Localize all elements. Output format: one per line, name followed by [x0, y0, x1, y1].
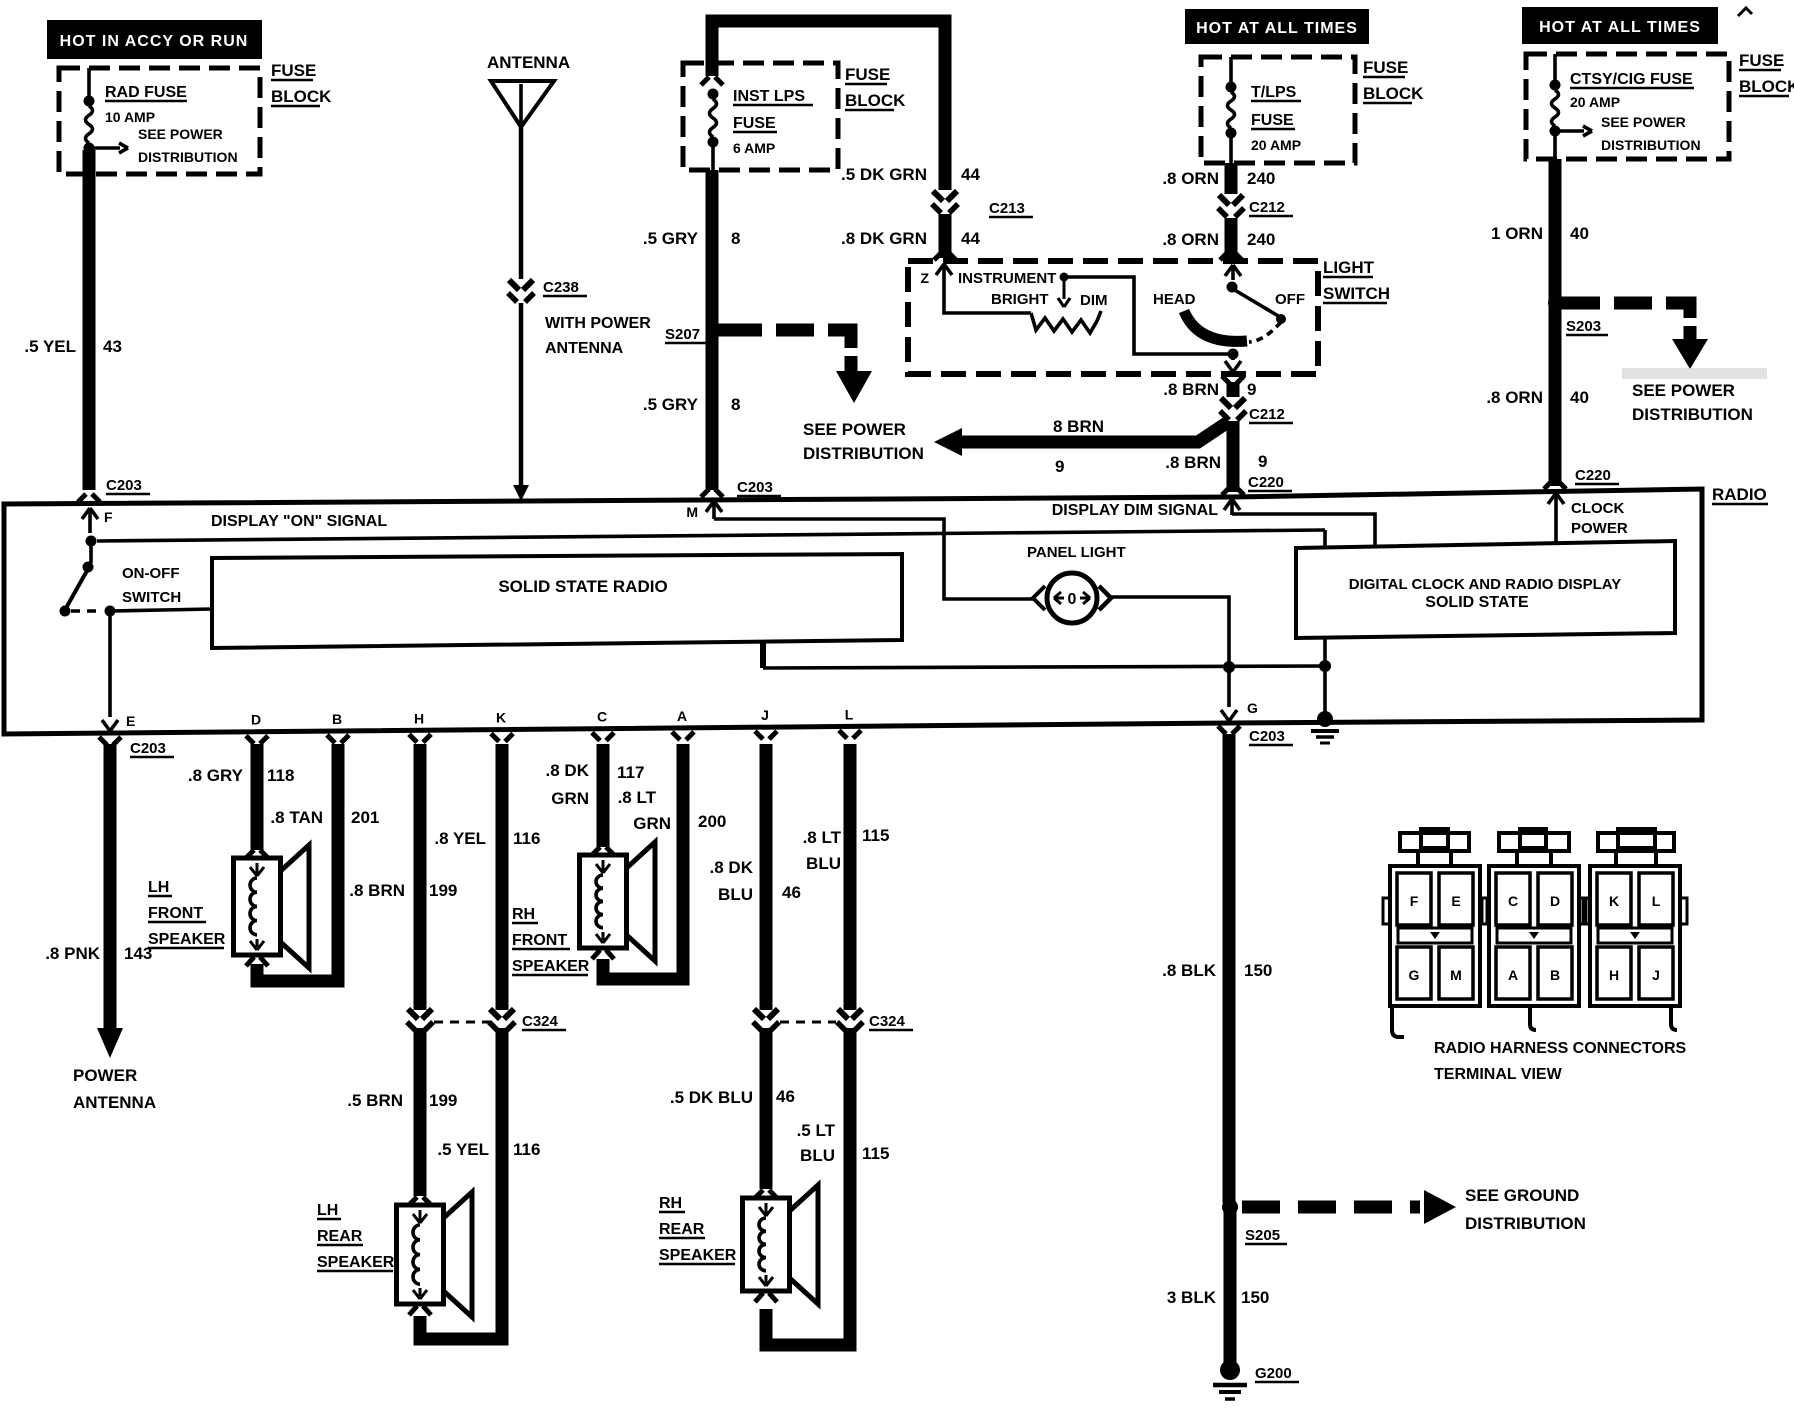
svg-text:8: 8 [731, 395, 740, 414]
ground at radio box [1323, 666, 1327, 716]
svg-text:.8 GRY: .8 GRY [188, 766, 244, 785]
svg-text:G: G [1247, 700, 1258, 716]
svg-text:C220: C220 [1575, 467, 1611, 484]
svg-text:199: 199 [429, 1091, 457, 1110]
svg-text:RH: RH [512, 906, 535, 923]
node lamp/ground [1223, 661, 1235, 673]
display dim signal [1230, 499, 1234, 515]
svg-text:RADIO HARNESS CONNECTORS: RADIO HARNESS CONNECTORS [1434, 1040, 1687, 1057]
svg-text:FRONT: FRONT [148, 905, 203, 922]
label FUSE BLOCK 1 [271, 61, 316, 80]
label C203 [106, 477, 150, 494]
svg-text:115: 115 [862, 826, 889, 845]
svg-text:C324: C324 [522, 1013, 559, 1030]
svg-text:CLOCK: CLOCK [1571, 500, 1624, 517]
svg-text:6 AMP: 6 AMP [733, 140, 775, 156]
svg-text:BLU: BLU [806, 854, 841, 873]
fuse T/LPS 20A [1226, 57, 1237, 163]
wire .8 LT BLU 115 [844, 744, 857, 1010]
svg-text:REAR: REAR [659, 1221, 705, 1238]
wire .8 DK BLU 46 [760, 744, 773, 1010]
label RH REAR SPEAKER [659, 1195, 685, 1212]
svg-text:M: M [686, 504, 698, 520]
svg-text:C212: C212 [1249, 406, 1285, 423]
wire top bar to INST LPS and light switch feed [712, 21, 945, 190]
fuse INST LPS 6A [701, 77, 723, 170]
label RADIO [1712, 485, 1768, 504]
dashed OFF position [1249, 322, 1281, 342]
wire .8 BRN 9 [1227, 382, 1240, 397]
label S207 [665, 326, 707, 343]
connector C324 right [754, 1009, 764, 1019]
svg-text:E: E [126, 713, 135, 729]
wire into light switch [939, 214, 952, 258]
svg-text:200: 200 [698, 812, 726, 831]
svg-text:20 AMP: 20 AMP [1251, 137, 1301, 153]
svg-text:116: 116 [513, 1140, 540, 1159]
svg-text:C324: C324 [869, 1013, 906, 1030]
svg-text:44: 44 [961, 165, 980, 184]
svg-text:HOT IN ACCY OR RUN: HOT IN ACCY OR RUN [60, 33, 249, 50]
svg-text:.5 YEL: .5 YEL [437, 1140, 489, 1159]
fuse RAD FUSE 10A [84, 68, 129, 154]
svg-text:.5 GRY: .5 GRY [643, 395, 699, 414]
svg-text:FUSE: FUSE [1363, 58, 1408, 77]
wire .8 ORN 240 [1225, 163, 1238, 194]
fuse block box 3 [1201, 57, 1355, 163]
svg-text:L: L [1652, 893, 1661, 909]
svg-text:ANTENNA: ANTENNA [73, 1093, 156, 1112]
arrow into radio (antenna) [513, 485, 529, 501]
svg-text:SPEAKER: SPEAKER [659, 1247, 737, 1264]
wire .5 YEL 116 [420, 1028, 502, 1339]
connector C203 (F) [78, 494, 86, 502]
svg-text:DIM: DIM [1080, 292, 1108, 309]
antenna symbol [491, 81, 554, 127]
svg-text:F: F [104, 509, 113, 525]
label C324 right [869, 1013, 913, 1030]
svg-text:DIGITAL CLOCK AND RADIO DISPLA: DIGITAL CLOCK AND RADIO DISPLAY [1349, 576, 1622, 593]
svg-text:M: M [1450, 967, 1462, 983]
svg-text:.8 ORN: .8 ORN [1162, 169, 1219, 188]
svg-text:H: H [414, 710, 424, 726]
label T/LPS [1251, 84, 1301, 101]
label C203 (M) [737, 479, 781, 496]
connector C220 (clock) [1544, 481, 1552, 489]
svg-text:240: 240 [1247, 230, 1275, 249]
svg-text:DISTRIBUTION: DISTRIBUTION [1465, 1214, 1586, 1233]
svg-text:.8 ORN: .8 ORN [1486, 388, 1543, 407]
label G200 [1255, 1365, 1299, 1382]
speaker LH FRONT [234, 858, 281, 955]
svg-text:115: 115 [862, 1144, 889, 1163]
light switch box [908, 261, 1318, 374]
svg-text:C203: C203 [130, 740, 166, 757]
solid state radio box [212, 554, 902, 648]
svg-text:240: 240 [1247, 169, 1275, 188]
label C238 [543, 279, 587, 296]
svg-text:0: 0 [1068, 591, 1077, 608]
svg-text:RADIO: RADIO [1712, 485, 1767, 504]
wire Z to rheostat [944, 281, 1031, 313]
svg-text:OFF: OFF [1275, 291, 1305, 308]
svg-text:118: 118 [267, 766, 294, 785]
svg-text:FUSE: FUSE [733, 115, 776, 132]
svg-text:ON-OFF: ON-OFF [122, 565, 180, 582]
connector C213 [933, 191, 943, 201]
wire .8 YEL 116 [496, 744, 509, 1010]
label CTSY/CIG FUSE [1570, 71, 1694, 88]
svg-text:WITH POWER: WITH POWER [545, 315, 651, 332]
svg-text:199: 199 [429, 881, 457, 900]
connector C203 (M) [701, 489, 709, 497]
svg-text:8: 8 [731, 229, 740, 248]
svg-text:LIGHT: LIGHT [1323, 258, 1375, 277]
label S203 [1566, 318, 1608, 335]
wire to OFF contact [1233, 289, 1280, 317]
svg-text:D: D [251, 712, 261, 728]
arrow 8 BRN to power distribution [960, 422, 1228, 442]
scan artifact mark [1738, 8, 1752, 16]
label C203 bottom [130, 740, 174, 757]
svg-text:S203: S203 [1566, 318, 1601, 335]
svg-text:A: A [677, 708, 687, 724]
label LH REAR SPEAKER [317, 1202, 341, 1219]
svg-text:HEAD: HEAD [1153, 291, 1196, 308]
splice S205 [1222, 1199, 1238, 1215]
svg-text:POWER: POWER [73, 1066, 137, 1085]
svg-text:ANTENNA: ANTENNA [545, 340, 624, 357]
svg-text:SOLID STATE RADIO: SOLID STATE RADIO [498, 577, 667, 596]
label C212 lower [1249, 406, 1293, 423]
terminal M [712, 501, 716, 519]
wire switch to E [108, 611, 112, 717]
switch output [1228, 349, 1239, 360]
svg-text:C: C [597, 709, 607, 725]
svg-text:G: G [1409, 967, 1420, 983]
svg-text:201: 201 [351, 808, 379, 827]
connector C203 (G) [1218, 726, 1226, 734]
svg-text:ANTENNA: ANTENNA [487, 53, 570, 72]
svg-text:G200: G200 [1255, 1365, 1292, 1382]
svg-text:INSTRUMENT: INSTRUMENT [958, 270, 1056, 287]
svg-text:BLOCK: BLOCK [845, 91, 906, 110]
wire .8 DK GRN 117 [597, 744, 610, 847]
connector legs [1392, 1006, 1404, 1037]
terminal 240 input [1231, 265, 1235, 280]
svg-text:RH: RH [659, 1195, 682, 1212]
svg-text:DISPLAY DIM SIGNAL: DISPLAY DIM SIGNAL [1052, 502, 1218, 519]
svg-text:150: 150 [1244, 961, 1272, 980]
wire .5 YEL 43 [83, 150, 96, 490]
radio box [4, 489, 1702, 734]
wire .8 TAN 201 [257, 744, 338, 981]
svg-text:DISTRIBUTION: DISTRIBUTION [1632, 405, 1753, 424]
svg-text:40: 40 [1570, 224, 1589, 243]
svg-text:INST LPS: INST LPS [733, 88, 805, 105]
svg-text:SPEAKER: SPEAKER [512, 958, 590, 975]
digital clock box [1296, 541, 1675, 638]
svg-text:9: 9 [1258, 452, 1267, 471]
svg-text:T/LPS: T/LPS [1251, 84, 1297, 101]
svg-text:9: 9 [1247, 380, 1256, 399]
wire .8 PNK 143 power antenna [104, 744, 117, 1030]
svg-text:.8 PNK: .8 PNK [45, 944, 101, 963]
fuse CTSY/CIG 20A [1550, 54, 1593, 159]
label C213 [989, 200, 1033, 217]
label FUSE BLOCK 2 [845, 65, 890, 84]
label C220 left [1248, 474, 1292, 491]
svg-text:SEE POWER: SEE POWER [138, 126, 223, 142]
svg-text:.8 BRN: .8 BRN [1163, 380, 1219, 399]
terminal G [1227, 672, 1231, 707]
svg-text:SOLID STATE: SOLID STATE [1425, 594, 1529, 611]
svg-text:.8 BRN: .8 BRN [349, 881, 405, 900]
svg-text:L: L [845, 706, 854, 722]
wire .5 LT BLU 115 [766, 1028, 850, 1345]
svg-text:BRIGHT: BRIGHT [991, 291, 1049, 308]
svg-text:BLU: BLU [800, 1146, 835, 1165]
svg-text:FUSE: FUSE [271, 61, 316, 80]
svg-text:SEE GROUND: SEE GROUND [1465, 1186, 1579, 1205]
svg-text:DISTRIBUTION: DISTRIBUTION [1601, 137, 1701, 153]
node instrument [1060, 273, 1069, 282]
svg-text:A: A [1508, 967, 1518, 983]
svg-text:10 AMP: 10 AMP [105, 109, 155, 125]
svg-text:SWITCH: SWITCH [122, 589, 181, 606]
label INST LPS [733, 88, 813, 105]
svg-text:SEE POWER: SEE POWER [803, 420, 906, 439]
svg-text:LH: LH [317, 1202, 338, 1219]
wire instrument to output [1068, 277, 1228, 354]
clock power [1554, 493, 1558, 512]
svg-text:TERMINAL VIEW: TERMINAL VIEW [1434, 1066, 1563, 1083]
svg-text:BLOCK: BLOCK [1363, 84, 1424, 103]
svg-text:.5 DK GRN: .5 DK GRN [841, 165, 927, 184]
svg-text:.8 DK: .8 DK [546, 761, 590, 780]
svg-text:FUSE: FUSE [1251, 112, 1294, 129]
label HOT AT ALL TIMES 2 [1522, 7, 1718, 44]
svg-text:PANEL LIGHT: PANEL LIGHT [1027, 544, 1126, 561]
svg-text:.8 LT: .8 LT [618, 788, 657, 807]
svg-text:.5 BRN: .5 BRN [347, 1091, 403, 1110]
connector C220 (dim) [1222, 487, 1230, 495]
svg-text:C213: C213 [989, 200, 1025, 217]
svg-text:FUSE: FUSE [1739, 51, 1784, 70]
label S205 [1245, 1227, 1287, 1244]
scan smudge [1622, 368, 1767, 379]
svg-text:POWER: POWER [1571, 520, 1628, 537]
connector C324 left [408, 1009, 418, 1019]
svg-text:C203: C203 [106, 477, 142, 494]
svg-text:DISTRIBUTION: DISTRIBUTION [803, 444, 924, 463]
svg-text:H: H [1609, 967, 1619, 983]
svg-text:C220: C220 [1248, 474, 1284, 491]
svg-text:46: 46 [782, 883, 801, 902]
fuse block box 4 [1526, 54, 1729, 159]
speaker LH REAR [397, 1205, 444, 1304]
svg-text:GRN: GRN [633, 814, 671, 833]
svg-text:SEE POWER: SEE POWER [1601, 114, 1686, 130]
wire .8 GRY 118 [251, 744, 264, 850]
wire M to panel light [714, 519, 1034, 599]
svg-text:.5 YEL: .5 YEL [24, 337, 76, 356]
label HOT AT ALL TIMES 1 [1185, 9, 1369, 44]
svg-text:.5 DK BLU: .5 DK BLU [670, 1088, 753, 1107]
connector C203 (E) [99, 737, 107, 745]
svg-text:3 BLK: 3 BLK [1167, 1288, 1217, 1307]
svg-text:F: F [1410, 893, 1419, 909]
label C203 (G) [1249, 728, 1293, 745]
svg-text:20 AMP: 20 AMP [1570, 94, 1620, 110]
splice S207 dashed branch [718, 324, 762, 337]
svg-text:E: E [1451, 893, 1460, 909]
svg-text:C203: C203 [737, 479, 773, 496]
svg-text:.8 LT: .8 LT [803, 828, 842, 847]
label RAD FUSE [105, 84, 187, 101]
wire 3 BLK 150 [1224, 1207, 1237, 1365]
svg-text:46: 46 [776, 1087, 795, 1106]
svg-text:S205: S205 [1245, 1227, 1280, 1244]
wire 1 ORN 40 [1549, 159, 1562, 486]
svg-text:SWITCH: SWITCH [1323, 284, 1390, 303]
svg-text:43: 43 [103, 337, 122, 356]
ground junction line [760, 642, 766, 668]
svg-text:.5 LT: .5 LT [797, 1121, 836, 1140]
svg-text:.8 YEL: .8 YEL [434, 829, 486, 848]
fuse block box 1 [59, 68, 260, 174]
wire .8 LT GRN 200 [603, 744, 683, 979]
svg-text:.5 GRY: .5 GRY [643, 229, 699, 248]
label RH FRONT SPEAKER [512, 906, 538, 923]
svg-text:REAR: REAR [317, 1228, 363, 1245]
wire switch to radio [110, 609, 212, 611]
svg-text:C: C [1508, 893, 1518, 909]
svg-text:BLOCK: BLOCK [271, 87, 332, 106]
svg-text:.8 DK: .8 DK [710, 858, 754, 877]
ground G200 [1220, 1360, 1240, 1380]
svg-text:SPEAKER: SPEAKER [317, 1254, 395, 1271]
panel light lamp [1033, 573, 1111, 623]
label FUSE BLOCK 4 [1739, 51, 1784, 70]
svg-text:HOT AT ALL TIMES: HOT AT ALL TIMES [1196, 20, 1358, 37]
svg-text:BLU: BLU [718, 885, 753, 904]
svg-text:FUSE: FUSE [845, 65, 890, 84]
svg-text:D: D [1550, 893, 1560, 909]
wiper arrow [1063, 281, 1066, 299]
connector C212 lower [1221, 398, 1231, 408]
svg-text:40: 40 [1570, 388, 1589, 407]
wire .5 BRN 199 [414, 1028, 427, 1196]
svg-text:RAD FUSE: RAD FUSE [105, 84, 187, 101]
connector C238 [509, 280, 519, 290]
svg-text:DISTRIBUTION: DISTRIBUTION [138, 149, 238, 165]
svg-text:117: 117 [617, 763, 644, 782]
on-off switch [86, 536, 97, 547]
svg-text:CTSY/CIG FUSE: CTSY/CIG FUSE [1570, 71, 1693, 88]
svg-text:.8 DK GRN: .8 DK GRN [841, 229, 927, 248]
svg-text:.8 ORN: .8 ORN [1162, 230, 1219, 249]
label LIGHT SWITCH [1323, 258, 1375, 277]
svg-text:C238: C238 [543, 279, 579, 296]
label HOT IN ACCY OR RUN [47, 20, 262, 59]
svg-text:DISPLAY "ON" SIGNAL: DISPLAY "ON" SIGNAL [211, 513, 387, 530]
svg-text:HOT AT ALL TIMES: HOT AT ALL TIMES [1539, 19, 1701, 36]
svg-text:K: K [1609, 893, 1619, 909]
svg-text:C203: C203 [1249, 728, 1285, 745]
svg-text:B: B [1550, 967, 1560, 983]
svg-text:44: 44 [961, 229, 980, 248]
switch wiper arc (HEAD) [1184, 311, 1247, 341]
wire antenna lead [519, 127, 524, 279]
svg-text:B: B [332, 711, 342, 727]
terminal F [88, 508, 92, 533]
speaker RH REAR [743, 1198, 790, 1291]
wire .8 BLK 150 [1223, 734, 1236, 1203]
label FUSE BLOCK 3 [1363, 58, 1408, 77]
svg-text:C212: C212 [1249, 199, 1285, 216]
connector C212 upper [1219, 195, 1229, 205]
svg-text:116: 116 [513, 829, 540, 848]
label C212 upper [1249, 199, 1293, 216]
svg-text:Z: Z [920, 270, 929, 286]
svg-text:9: 9 [1055, 457, 1064, 476]
label C220 right [1575, 467, 1619, 484]
speaker RH FRONT [580, 855, 627, 948]
svg-text:S207: S207 [665, 326, 700, 343]
terminal Z [942, 264, 946, 281]
wire .8 BRN 199 [414, 744, 427, 1010]
svg-text:GRN: GRN [551, 789, 589, 808]
radio harness connectors terminal view [1400, 833, 1469, 851]
svg-text:8 BRN: 8 BRN [1053, 417, 1104, 436]
svg-text:K: K [496, 710, 506, 726]
fuse block box 2 [683, 63, 838, 170]
svg-text:J: J [761, 707, 769, 723]
svg-text:.8 TAN: .8 TAN [270, 808, 323, 827]
splice S203 dashed branch [1548, 296, 1562, 310]
svg-text:.8 BLK: .8 BLK [1162, 961, 1217, 980]
node clock ground [1319, 660, 1331, 672]
svg-text:BLOCK: BLOCK [1739, 77, 1794, 96]
wire lamp to ground junction [1110, 597, 1229, 662]
svg-text:SPEAKER: SPEAKER [148, 931, 226, 948]
svg-text:1 ORN: 1 ORN [1491, 224, 1543, 243]
label C324 left [522, 1013, 566, 1030]
wire .5 DK BLU 46 [760, 1028, 773, 1189]
svg-text:J: J [1652, 967, 1660, 983]
svg-text:LH: LH [148, 879, 169, 896]
svg-text:SEE POWER: SEE POWER [1632, 381, 1735, 400]
svg-text:.8 BRN: .8 BRN [1165, 453, 1221, 472]
display on signal line [97, 530, 1325, 541]
label LH FRONT SPEAKER [148, 879, 172, 896]
rheostat BRIGHT-DIM [1031, 311, 1101, 333]
wire .5 GRY 8 upper [706, 170, 719, 490]
svg-text:FRONT: FRONT [512, 932, 567, 949]
svg-text:150: 150 [1241, 1288, 1269, 1307]
